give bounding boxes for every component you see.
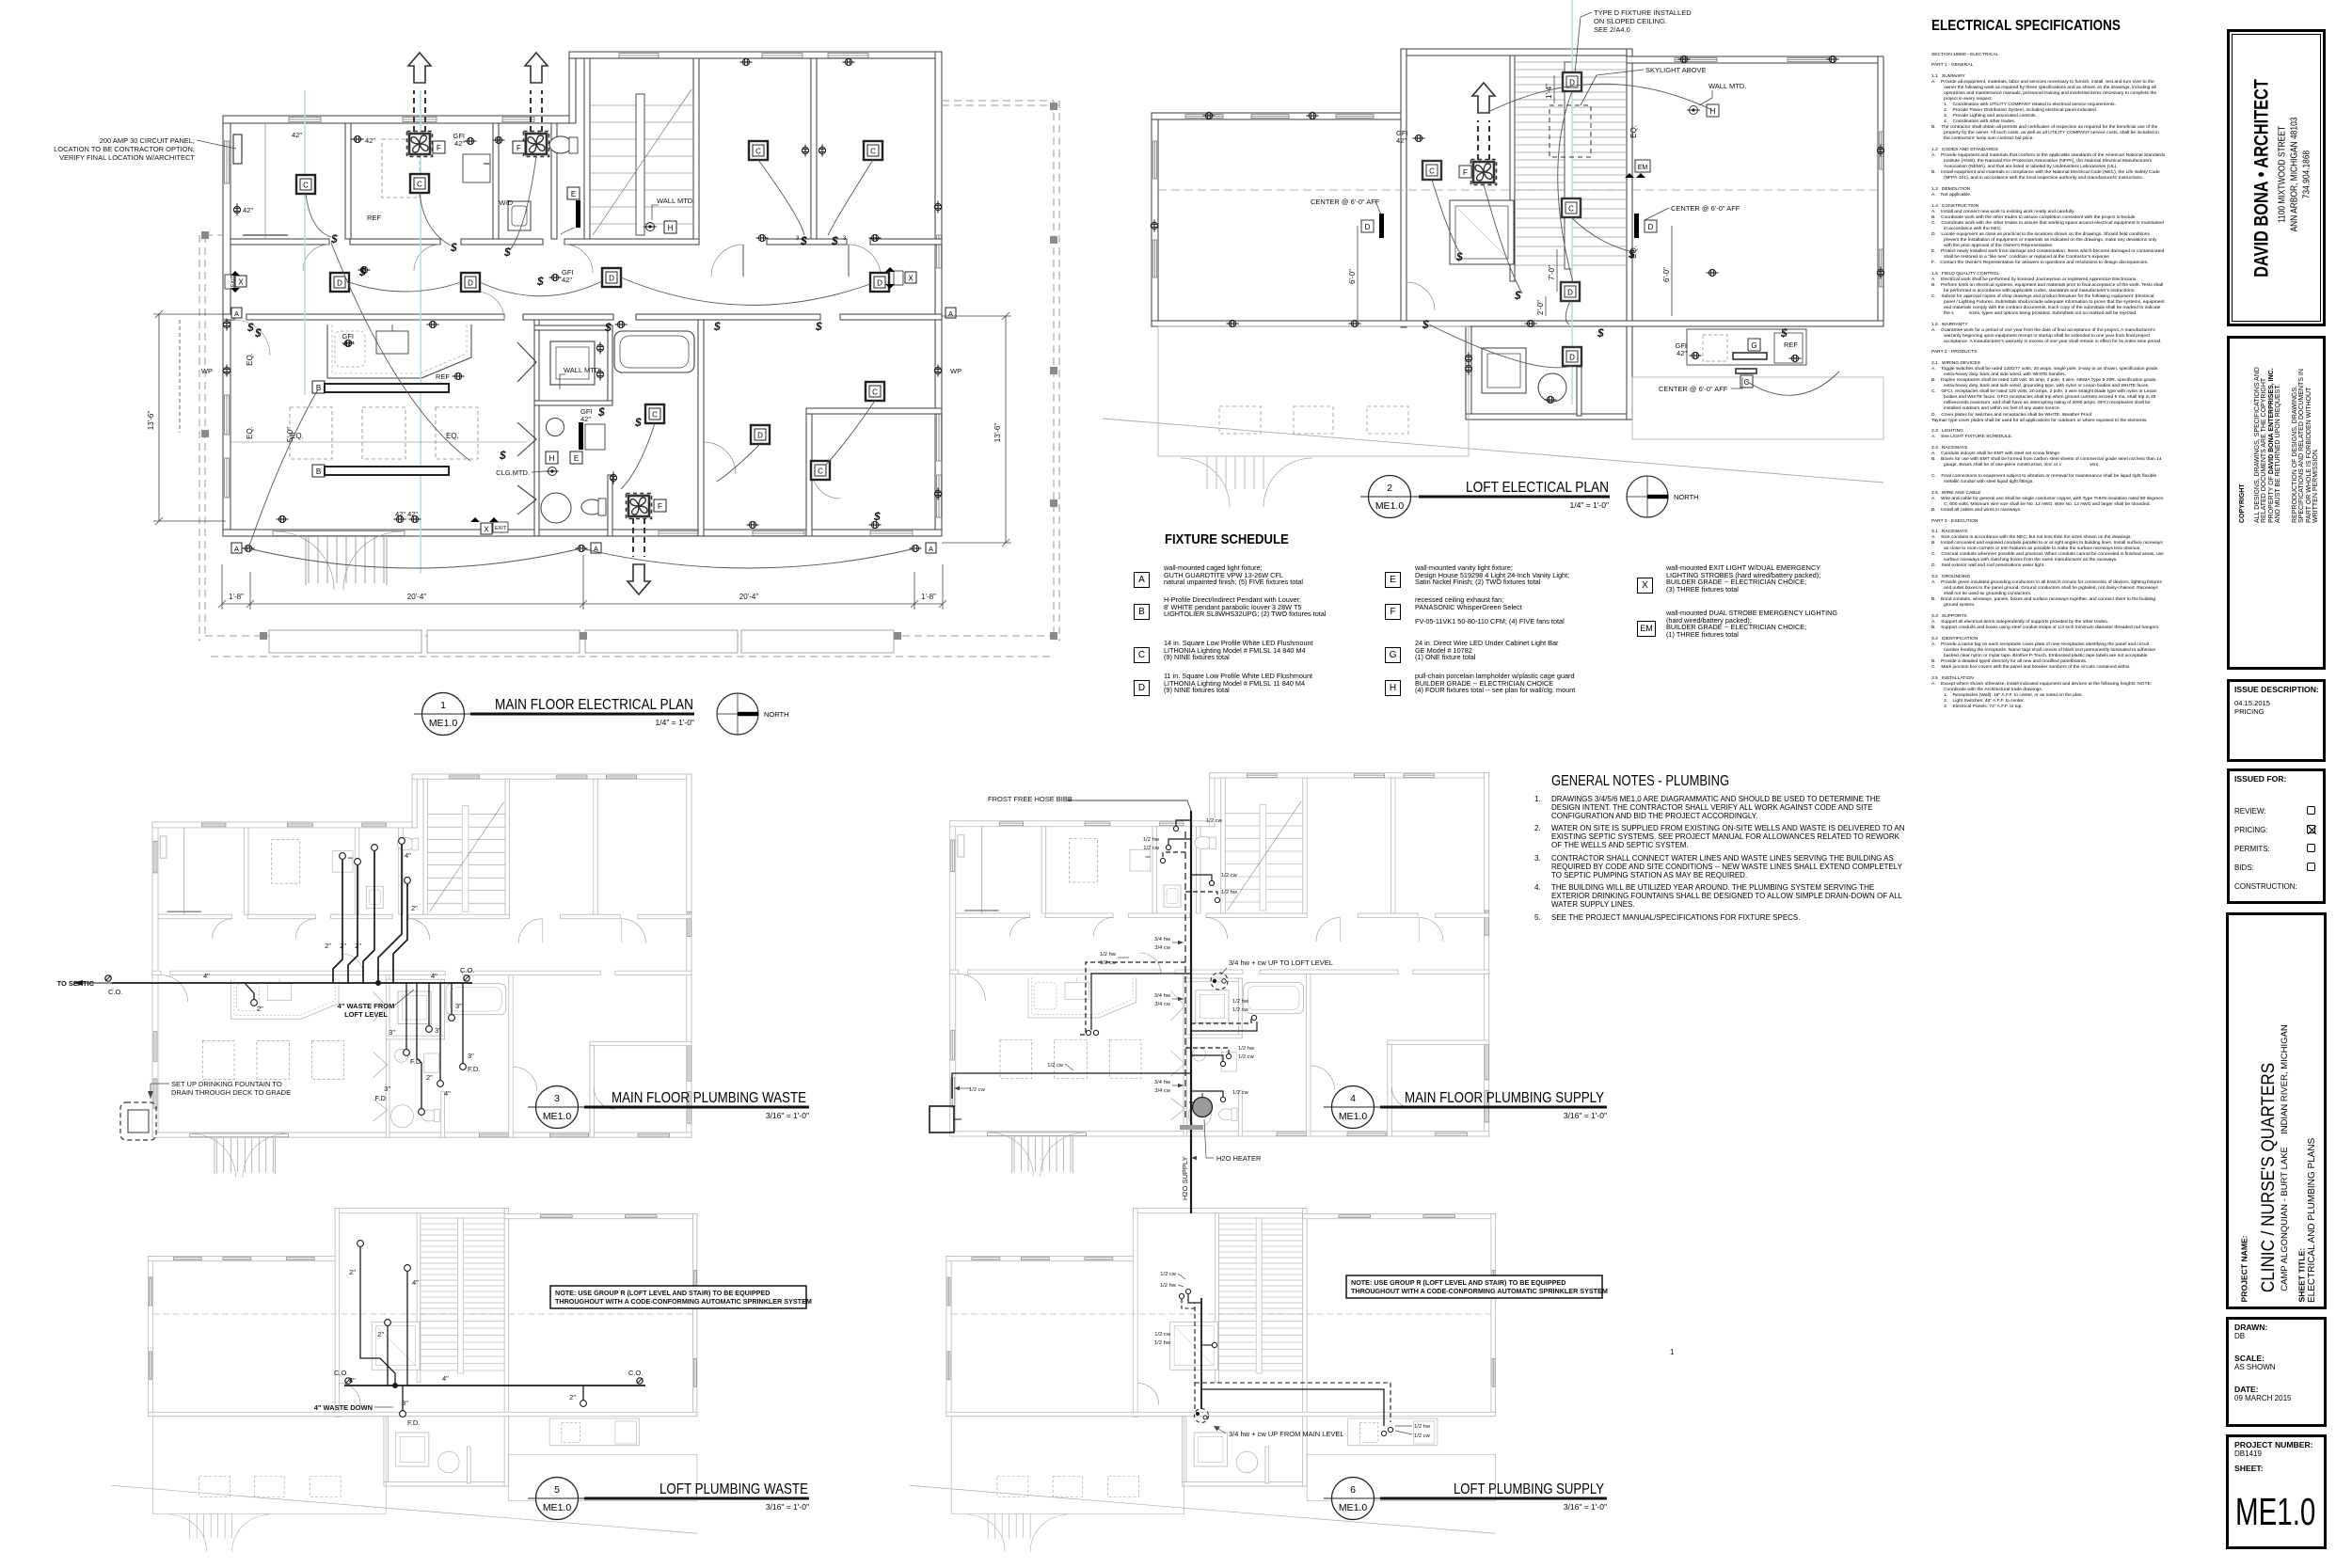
hw dashed riser (1184, 832, 1186, 1119)
svg-text:LOCATION TO BE CONTRACTOR OPTI: LOCATION TO BE CONTRACTOR OPTION; (54, 145, 195, 153)
E bar bath (579, 422, 583, 450)
svg-text:1/2 hw: 1/2 hw (1143, 837, 1160, 843)
svg-text:EXIT: EXIT (230, 275, 236, 287)
riser top fixtures (340, 838, 411, 884)
svg-text:1/2 cw: 1/2 cw (1232, 1007, 1249, 1013)
svg-text:3/4 hw + cw UP FROM MAIN LEVEL: 3/4 hw + cw UP FROM MAIN LEVEL (1229, 1430, 1344, 1438)
supply top branch to wc (1188, 1294, 1201, 1303)
svg-text:1/2 cw: 1/2 cw (1414, 1433, 1431, 1439)
svg-text:42": 42" (365, 136, 375, 145)
A letterboxes at WP receptacles (231, 308, 956, 553)
title block: drawn/scale/date (2226, 1317, 2327, 1427)
svg-text:1/2 cw: 1/2 cw (1238, 1054, 1255, 1060)
fixture C loft bath (1422, 161, 1441, 180)
svg-text:3": 3" (468, 1052, 474, 1060)
center line through dining (230, 441, 527, 443)
svg-text:$: $ (246, 321, 254, 334)
fixture C bed3 (866, 382, 884, 401)
title block: project number / sheet (2226, 1434, 2327, 1549)
fixture C bath1 (410, 174, 429, 193)
svg-text:1/2 cw: 1/2 cw (1232, 1090, 1249, 1096)
svg-text:2": 2" (426, 1073, 433, 1082)
loft waste main line (344, 1385, 645, 1386)
svg-text:H: H (1710, 107, 1716, 116)
svg-text:$: $ (358, 265, 366, 278)
note box plan5 (550, 1286, 812, 1308)
fixture C storage (296, 175, 315, 194)
svg-text:C: C (872, 388, 878, 397)
top branch toilet (1176, 820, 1191, 826)
title block: issued for (2227, 768, 2326, 904)
note box plan6 (1346, 1275, 1608, 1298)
electrical specifications (1931, 18, 2121, 35)
svg-text:42": 42" (580, 415, 591, 423)
svg-text:4": 4" (444, 1089, 451, 1098)
svg-text:SET UP DRINKING FOUNTAIN TO: SET UP DRINKING FOUNTAIN TO (171, 1080, 282, 1088)
svg-text:F.D.: F.D. (410, 1057, 422, 1066)
svg-text:A: A (234, 309, 239, 318)
svg-text:WP: WP (201, 367, 213, 375)
svg-text:C: C (1429, 167, 1435, 176)
fixture D bed room (751, 425, 770, 444)
svg-text:D: D (1569, 354, 1575, 362)
svg-text:3": 3" (384, 1085, 390, 1093)
plan1 switch arcs (248, 156, 915, 568)
fixture D stair bottom (1561, 282, 1580, 301)
letterbox F3 (654, 499, 666, 512)
plumbing chase line blue 2 (420, 90, 421, 574)
EM fixture (1635, 160, 1650, 172)
svg-text:2": 2" (340, 942, 346, 950)
plan2 labels (1311, 8, 1798, 393)
fixture D annex (1563, 347, 1581, 366)
exit light X bottom (470, 517, 508, 534)
svg-text:$: $ (254, 326, 262, 340)
fan F1 (407, 132, 433, 157)
svg-text:SKYLIGHT ABOVE: SKYLIGHT ABOVE (1645, 66, 1706, 74)
svg-text:3": 3" (435, 1026, 441, 1035)
bath sink branch (1191, 1055, 1223, 1061)
wc low branch (1191, 1091, 1223, 1097)
fixture C bed4 (811, 461, 830, 480)
title bubble 4 (1324, 1086, 1607, 1129)
svg-text:EXIT: EXIT (495, 526, 507, 531)
svg-text:2": 2" (349, 1268, 356, 1276)
fixture C bed1 (749, 141, 768, 160)
loft fan F (1471, 160, 1497, 185)
svg-text:4": 4" (431, 972, 437, 980)
svg-text:EM: EM (1638, 165, 1648, 171)
svg-text:$: $ (1422, 318, 1429, 331)
general notes plumbing (1551, 773, 1729, 790)
svg-text:1/2 hw: 1/2 hw (1232, 999, 1249, 1005)
svg-text:MAIN FLOOR PLUMBING WASTE: MAIN FLOOR PLUMBING WASTE (612, 1090, 806, 1106)
exit light X left (225, 271, 246, 293)
svg-text:3": 3" (389, 1028, 395, 1037)
svg-text:F.D.: F.D. (375, 1094, 388, 1102)
svg-text:6'-0": 6'-0" (1348, 269, 1357, 284)
200 amp panel label (54, 136, 195, 162)
H loft + wall mtd (1707, 104, 1719, 117)
outdoor fountain (930, 1106, 954, 1132)
svg-text:THROUGHOUT WITH A CODE-CONFORM: THROUGHOUT WITH A CODE-CONFORMING AUTOMA… (555, 1297, 812, 1306)
svg-text:C.O.: C.O. (628, 1369, 643, 1377)
svg-text:ON SLOPED CEILING.: ON SLOPED CEILING. (1594, 17, 1667, 25)
plan1 switches (246, 232, 881, 523)
plan1 texts (201, 131, 961, 518)
svg-text:F: F (1463, 168, 1468, 177)
E bar top (576, 200, 580, 228)
svg-text:42": 42" (562, 276, 572, 284)
svg-text:EQ.: EQ. (246, 353, 254, 366)
svg-text:1'-8": 1'-8" (229, 593, 244, 601)
svg-text:E: E (571, 190, 576, 198)
right fixture circles (1381, 1431, 1386, 1435)
svg-text:3/16" = 1'-0": 3/16" = 1'-0" (1564, 1111, 1607, 1120)
plan3 labels (57, 851, 481, 1102)
plan3 leaders (148, 990, 414, 1099)
wall mtd leaders (532, 205, 659, 472)
svg-text:MAIN FLOOR ELECTRICAL PLAN: MAIN FLOOR ELECTRICAL PLAN (495, 697, 693, 713)
svg-text:20'-4": 20'-4" (739, 593, 759, 601)
svg-text:F: F (516, 144, 521, 152)
svg-text:WALL MTD.: WALL MTD. (564, 366, 601, 374)
loft duct dashed up (1478, 120, 1489, 160)
svg-text:C.O.: C.O. (108, 988, 122, 996)
svg-text:4" WASTE DOWN: 4" WASTE DOWN (314, 1403, 373, 1412)
svg-text:42": 42" (1677, 349, 1687, 357)
svg-text:13'-6": 13'-6" (993, 423, 1002, 443)
svg-text:1/4" = 1'-0": 1/4" = 1'-0" (1570, 500, 1609, 510)
letterbox F1 (433, 141, 445, 153)
fixture D hall 1 (330, 273, 349, 292)
svg-text:3/4 cw: 3/4 cw (1154, 945, 1171, 951)
svg-text:$: $ (1514, 289, 1521, 302)
svg-text:2: 2 (1387, 483, 1392, 494)
svg-text:H: H (668, 224, 674, 232)
fixture D hall 3 (602, 268, 621, 287)
plan2 dims (1358, 75, 1672, 320)
plan5 loft plumbing waste base (111, 1209, 697, 1552)
svg-text:4": 4" (203, 972, 210, 980)
D wall fixture right (1634, 214, 1639, 238)
panel leader (197, 140, 236, 149)
svg-text:2": 2" (257, 1005, 263, 1013)
svg-text:D: D (1648, 223, 1654, 231)
main waste line (112, 982, 472, 984)
svg-text:$: $ (604, 321, 612, 334)
plan4 main floor plumbing supply base (950, 773, 1489, 1177)
svg-text:$: $ (815, 320, 822, 333)
title bubble 1 (414, 693, 694, 736)
svg-text:42": 42" (243, 206, 253, 214)
svg-text:$: $ (536, 275, 544, 288)
plan2 switches (1422, 247, 1788, 340)
svg-text:D: D (877, 279, 882, 288)
svg-text:THROUGHOUT WITH A CODE-CONFORM: THROUGHOUT WITH A CODE-CONFORMING AUTOMA… (1351, 1287, 1608, 1295)
svg-text:C: C (652, 411, 658, 420)
svg-text:G: G (1751, 341, 1756, 350)
svg-text:$: $ (873, 510, 881, 523)
svg-text:WALL MTD.: WALL MTD. (657, 197, 694, 205)
fixture schedule (1165, 531, 1289, 547)
svg-text:WP: WP (950, 367, 961, 375)
svg-text:EQ.: EQ. (446, 432, 459, 440)
fan F3 (627, 494, 652, 519)
cleanouts (105, 975, 111, 981)
pendant B1 bar (325, 384, 449, 392)
letterbox H bath + symbol (546, 451, 558, 464)
svg-text:ME1.0: ME1.0 (543, 1111, 572, 1122)
roof vent arrow 1 (408, 53, 431, 83)
svg-text:3/4 hw: 3/4 hw (1154, 993, 1171, 999)
svg-text:A: A (234, 545, 239, 553)
svg-text:ME1.0: ME1.0 (1375, 500, 1405, 512)
north arrow 1 (717, 693, 758, 735)
svg-text:C.O.: C.O. (334, 1369, 348, 1377)
fan F2 (524, 132, 549, 157)
riser toilet (406, 1272, 408, 1386)
svg-text:B: B (316, 467, 321, 476)
plan6 loft plumbing supply base (910, 1209, 1496, 1552)
letterbox F2 (513, 141, 525, 153)
svg-text:E: E (574, 454, 579, 463)
svg-text:3": 3" (402, 1399, 408, 1407)
downstream branches (405, 983, 407, 1049)
svg-text:$: $ (499, 449, 506, 462)
plan1 receptacles (223, 58, 941, 551)
title block: copyright box (2227, 336, 2326, 670)
svg-text:1/2 cw: 1/2 cw (969, 1087, 986, 1093)
letterbox B1 (312, 381, 325, 393)
svg-text:SEE 2/A4.0: SEE 2/A4.0 (1594, 25, 1630, 34)
plan3 main floor plumbing waste base (152, 774, 691, 1178)
title block: architect box (2227, 29, 2326, 326)
svg-text:2": 2" (325, 942, 331, 950)
svg-text:C: C (755, 148, 761, 156)
svg-text:$: $ (634, 416, 642, 429)
svg-text:EQ.: EQ. (246, 426, 254, 439)
svg-text:ME1.0: ME1.0 (1339, 1111, 1368, 1122)
svg-text:FROST FREE HOSE BIBB: FROST FREE HOSE BIBB (988, 795, 1073, 803)
svg-text:20'-4": 20'-4" (407, 593, 427, 601)
svg-text:X: X (484, 526, 489, 534)
svg-text:2": 2" (569, 1393, 576, 1402)
svg-text:F: F (437, 144, 441, 152)
svg-text:C: C (417, 181, 422, 189)
svg-text:W/D: W/D (499, 198, 513, 207)
fixture D hall 4 (870, 273, 889, 292)
svg-text:CENTER @ 6'-0" AFF: CENTER @ 6'-0" AFF (1311, 198, 1380, 206)
kitchen branch long (952, 1073, 1191, 1099)
svg-text:3": 3" (455, 1002, 462, 1010)
svg-text:1/2 hw: 1/2 hw (1414, 1424, 1431, 1430)
svg-text:D: D (1567, 289, 1573, 297)
plan4 leaders small (954, 941, 1227, 1160)
plan4 small labels (969, 818, 1255, 1096)
title bubble 6 (1324, 1478, 1607, 1520)
riser from main level dashed circle (1195, 1409, 1209, 1423)
svg-text:1/2 cw: 1/2 cw (1100, 960, 1117, 966)
svg-text:LOFT PLUMBING WASTE: LOFT PLUMBING WASTE (660, 1481, 808, 1497)
h2o heater (1193, 1098, 1213, 1117)
svg-text:$: $ (1780, 326, 1788, 340)
svg-text:CENTER @ 6'-0" AFF: CENTER @ 6'-0" AFF (1671, 204, 1740, 213)
svg-text:ME1.0: ME1.0 (429, 718, 458, 729)
loft electrical plan walls (1103, 49, 1883, 507)
drinking fountain dashed (120, 1102, 156, 1140)
fixture C bed2 (864, 141, 882, 160)
svg-text:C: C (303, 182, 309, 190)
svg-text:3/16" = 1'-0": 3/16" = 1'-0" (766, 1502, 809, 1512)
svg-text:A: A (948, 309, 953, 318)
svg-text:NORTH: NORTH (764, 710, 789, 719)
svg-text:D: D (468, 279, 473, 288)
svg-text:ME1.0: ME1.0 (543, 1502, 572, 1513)
svg-text:1/2 hw: 1/2 hw (1154, 1340, 1171, 1346)
svg-text:3/4 hw + cw UP TO LOFT LEVEL: 3/4 hw + cw UP TO LOFT LEVEL (1229, 958, 1333, 967)
svg-text:REF: REF (367, 214, 381, 222)
svg-text:NOTE: USE GROUP R (LOFT LEVEL: NOTE: USE GROUP R (LOFT LEVEL AND STAIR)… (1351, 1278, 1565, 1287)
svg-text:42" 42": 42" 42" (395, 510, 418, 518)
C kitchenette under-cab (1736, 369, 1756, 373)
svg-text:2": 2" (355, 942, 361, 950)
svg-text:DRAIN THROUGH DECK TO GRADE: DRAIN THROUGH DECK TO GRADE (171, 1088, 291, 1097)
svg-text:C: C (870, 148, 876, 156)
svg-text:REF: REF (436, 372, 450, 381)
svg-text:3: 3 (554, 1093, 560, 1104)
svg-text:4": 4" (442, 1374, 449, 1383)
shower stub (1201, 1344, 1212, 1346)
svg-text:4" WASTE FROM: 4" WASTE FROM (338, 1002, 395, 1010)
svg-text:1/2 hw: 1/2 hw (1100, 952, 1117, 958)
svg-text:WALL MTD.: WALL MTD. (1708, 82, 1746, 90)
svg-text:1/2 cw: 1/2 cw (1154, 1332, 1171, 1338)
svg-text:1/2 cw: 1/2 cw (1160, 1272, 1177, 1277)
svg-text:4: 4 (1350, 1093, 1356, 1104)
svg-text:3/4 cw: 3/4 cw (1154, 1088, 1171, 1094)
svg-text:3/16" = 1'-0": 3/16" = 1'-0" (1564, 1502, 1607, 1512)
svg-text:D: D (609, 275, 614, 283)
svg-text:1/2 hw: 1/2 hw (1221, 890, 1238, 895)
svg-text:4": 4" (412, 1278, 419, 1287)
svg-text:42": 42" (1396, 136, 1406, 145)
svg-text:6'-0": 6'-0" (1662, 267, 1671, 282)
title bubble 2 (1360, 476, 1610, 518)
svg-text:TO SEPTIC: TO SEPTIC (57, 979, 95, 988)
pendant B2 bar (325, 467, 449, 475)
fixture C stair (1562, 198, 1581, 217)
svg-text:VERIFY FINAL LOCATION W/ARCHIT: VERIFY FINAL LOCATION W/ARCHITECT (59, 153, 195, 162)
svg-text:REF: REF (1784, 341, 1798, 349)
title block: project box (2226, 912, 2327, 1309)
svg-text:ME1.0: ME1.0 (1339, 1502, 1368, 1513)
letterbox E bath (570, 451, 582, 464)
svg-text:3/4 cw: 3/4 cw (1154, 1002, 1171, 1007)
svg-text:LOFT LEVEL: LOFT LEVEL (344, 1010, 388, 1019)
svg-text:LOFT ELECTICAL PLAN: LOFT ELECTICAL PLAN (1466, 480, 1609, 496)
svg-text:$: $ (800, 234, 807, 247)
svg-text:EQ.: EQ. (1629, 125, 1638, 138)
svg-text:1/4" = 1'-0": 1/4" = 1'-0" (656, 718, 694, 727)
svg-text:$: $ (450, 241, 457, 254)
svg-text:1'-4": 1'-4" (1545, 84, 1553, 99)
svg-text:13'-6": 13'-6" (147, 411, 155, 431)
deck posts (201, 103, 1057, 640)
loft chase blue line (1571, 0, 1573, 404)
svg-text:F: F (658, 502, 662, 511)
svg-text:EQ.: EQ. (1629, 245, 1638, 259)
svg-text:C: C (818, 467, 823, 476)
svg-text:1/2 hw: 1/2 hw (1238, 1046, 1255, 1052)
svg-text:1: 1 (440, 700, 446, 711)
svg-text:D: D (1365, 223, 1371, 231)
svg-text:1/2 cw: 1/2 cw (1047, 1063, 1064, 1069)
shutoff bar (1180, 1125, 1203, 1130)
plan1 fixture letter boxes (225, 141, 916, 534)
duct dashed up 2 (531, 90, 542, 132)
title block: issue description (2227, 679, 2326, 762)
svg-text:3/16" = 1'-0": 3/16" = 1'-0" (766, 1111, 809, 1120)
svg-text:C.O.: C.O. (460, 966, 474, 974)
svg-text:F.D.: F.D. (468, 1065, 480, 1073)
svg-text:TYPE D FIXTURE INSTALLED: TYPE D FIXTURE INSTALLED (1594, 8, 1692, 17)
svg-text:$: $ (1597, 326, 1604, 340)
svg-text:EQ.: EQ. (291, 432, 304, 440)
svg-text:$: $ (831, 234, 838, 247)
svg-text:D: D (757, 432, 763, 440)
svg-text:2": 2" (377, 1330, 384, 1338)
h2o supply main riser (1190, 811, 1192, 1213)
svg-text:1/2 hw: 1/2 hw (1160, 1283, 1177, 1289)
plan2 receptacles (1151, 55, 1883, 403)
svg-text:3/4 hw: 3/4 hw (1154, 1080, 1171, 1085)
deck boards (269, 630, 894, 653)
svg-text:200 AMP 30 CIRCUIT PANEL;: 200 AMP 30 CIRCUIT PANEL; (100, 136, 195, 145)
svg-text:1/2 cw: 1/2 cw (1221, 873, 1238, 879)
fd drop (402, 1386, 404, 1410)
letterbox B2 (312, 465, 325, 477)
svg-text:NOTE: USE GROUP R (LOFT LEVEL: NOTE: USE GROUP R (LOFT LEVEL AND STAIR)… (555, 1289, 770, 1297)
deck dashed left edge (199, 101, 1059, 657)
svg-text:42": 42" (292, 131, 302, 139)
svg-text:C: C (1568, 205, 1574, 214)
letterbox H top + symbol (664, 221, 676, 233)
svg-text:CLG.MTD.: CLG.MTD. (496, 468, 530, 477)
plumbing chase line blue 1 (304, 90, 306, 395)
svg-text:1/2 cw: 1/2 cw (1206, 818, 1223, 824)
kitchen branch (245, 983, 254, 999)
svg-text:MAIN FLOOR PLUMBING SUPPLY: MAIN FLOOR PLUMBING SUPPLY (1405, 1090, 1604, 1106)
svg-text:1: 1 (1670, 1348, 1675, 1356)
svg-text:5: 5 (554, 1484, 560, 1496)
svg-text:4": 4" (405, 851, 411, 860)
title bubble 5 (528, 1478, 809, 1520)
to septic leader (73, 982, 112, 984)
svg-text:X: X (238, 278, 244, 287)
horizontal run right dashed+solid (1195, 1383, 1391, 1422)
svg-text:$: $ (503, 245, 511, 259)
svg-text:6: 6 (1350, 1484, 1356, 1496)
svg-text:$: $ (597, 405, 605, 419)
plan1 dims (153, 310, 1011, 610)
north arrow 2 (1627, 476, 1668, 517)
duct dashed down 3 (633, 518, 644, 557)
svg-text:NORTH: NORTH (1674, 493, 1699, 501)
svg-text:3/4 hw: 3/4 hw (1154, 937, 1171, 942)
hose bibb leader (1067, 800, 1191, 811)
svg-text:42": 42" (343, 340, 354, 348)
